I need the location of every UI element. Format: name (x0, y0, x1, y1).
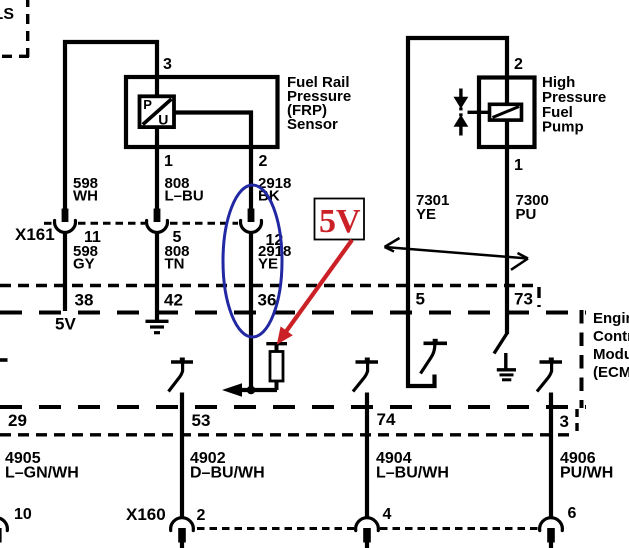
svg-text:2: 2 (259, 153, 268, 170)
ECM bottom dash-boundary (0, 405, 586, 409)
svg-text:10: 10 (14, 506, 32, 523)
svg-text:(ECM): (ECM) (593, 364, 629, 381)
wire: P/U output to sensor pin 2 (171, 113, 251, 211)
svg-text:1: 1 (164, 153, 173, 170)
svg-text:73: 73 (514, 290, 533, 309)
svg-text:3: 3 (560, 412, 569, 431)
dashed box corner top-left (0, 0, 29, 57)
switch at ECM pin 3 (537, 358, 562, 392)
wire label 4906 PU/WH (560, 450, 613, 482)
connector X160 pin 10 (cut off) (0, 518, 7, 543)
svg-text:YE: YE (258, 256, 278, 273)
wire: ECM pin 3 down to X160 pin 6 (549, 393, 553, 520)
red annotation arrow (285, 240, 352, 333)
wire label 598 GY (73, 243, 98, 273)
High Pressure Fuel Pump box (479, 78, 535, 148)
connector X161 pin 5 (147, 209, 168, 233)
wire: 2918 YE down to ECM pin 36 and junction (249, 233, 253, 391)
ECM connector dense-dash border (upper) (0, 286, 540, 308)
ground symbol at pin 42 (146, 321, 169, 332)
ECM connector dense-dash border (lower) (0, 409, 577, 435)
svg-text:2: 2 (514, 56, 523, 73)
svg-text:74: 74 (377, 410, 396, 429)
5V callout box (315, 199, 365, 240)
svg-text:U: U (158, 111, 168, 127)
svg-text:LS: LS (0, 6, 14, 23)
wire: sensor pin 1 down (155, 126, 159, 210)
connector X161 pin 12 (240, 209, 261, 233)
wire label 598 WH (73, 175, 98, 205)
wire label 808 TN (165, 243, 190, 273)
P/U pressure transducer symbol (140, 96, 175, 127)
svg-text:1: 1 (514, 157, 523, 174)
svg-text:YE: YE (416, 206, 436, 223)
X160 connector dashed row (197, 527, 538, 530)
X161 connector dashed row (44, 222, 238, 225)
continuation arrow (left) (222, 383, 242, 397)
ground symbol at pin 73 (497, 353, 516, 380)
resistor (5V pull-up) (266, 343, 287, 390)
svg-text:38: 38 (75, 291, 94, 310)
wire label 4902 D-BU/WH (190, 450, 265, 482)
pump check-valve symbol (454, 89, 469, 136)
svg-text:PU/WH: PU/WH (560, 465, 613, 482)
svg-text:42: 42 (164, 291, 183, 310)
FRP sensor name (287, 74, 351, 133)
connector X160 pin 4 (356, 518, 379, 548)
connector X160 pin 2 (171, 518, 194, 548)
wire label 7301 YE (416, 192, 449, 223)
wire label 4905 L-GN/WH (5, 450, 79, 482)
svg-text:GY: GY (73, 256, 95, 273)
wire label 2918 BK (258, 175, 291, 205)
svg-text:X160: X160 (126, 505, 166, 524)
Engine Control Module (ECM) name (593, 310, 629, 381)
switch at ECM pin 53 (169, 358, 194, 392)
wire: 598 GY down to ECM pin 38 (63, 233, 67, 312)
svg-text:TN: TN (165, 256, 185, 273)
svg-text:PU: PU (516, 206, 537, 223)
svg-text:L–GN/WH: L–GN/WH (5, 465, 79, 482)
svg-text:5V: 5V (55, 315, 76, 334)
pump solenoid symbol (490, 104, 522, 120)
wire label 4904 L-BU/WH (376, 450, 449, 482)
svg-text:29: 29 (8, 411, 27, 430)
wire: 808 TN down to ECM pin 42 (155, 233, 159, 321)
annotation double-headed arrow (385, 238, 529, 270)
svg-text:4: 4 (383, 506, 392, 523)
svg-text:Engine: Engine (593, 310, 629, 327)
switch at ECM pin 73 (7300 PU) to ground (494, 333, 508, 354)
wire: high pressure fuel pump loop (pin2 top, 7301 YE left leg with hook) (408, 38, 507, 386)
wire: 598 WH from X161 pin 11 up and over to FRP sensor pin 3 (65, 42, 157, 210)
svg-text:Pump: Pump (542, 119, 584, 136)
svg-text:36: 36 (258, 291, 277, 310)
wire: ECM pin 53 down to X160 pin 2 (180, 393, 184, 520)
wire: junction horizontal run (240, 388, 277, 392)
svg-text:53: 53 (192, 411, 211, 430)
wire label 808 L-BU (165, 175, 204, 205)
svg-text:6: 6 (568, 505, 577, 522)
svg-text:Control: Control (593, 328, 629, 345)
switch at ECM pin 74 (353, 358, 378, 392)
junction node (247, 386, 256, 395)
svg-text:2: 2 (197, 507, 206, 524)
svg-text:Module: Module (593, 346, 629, 363)
wire: ECM pin 74 down to X160 pin 4 (365, 393, 369, 520)
svg-text:P: P (143, 97, 152, 112)
svg-text:Sensor: Sensor (287, 116, 338, 133)
svg-text:WH: WH (73, 188, 98, 205)
connector X160 pin 6 (540, 518, 563, 548)
svg-text:X161: X161 (15, 225, 55, 244)
pump solenoid lead (468, 111, 491, 114)
ECM right dash-boundary (580, 310, 584, 408)
svg-text:3: 3 (163, 56, 172, 73)
connector X161 pin 11 (55, 209, 76, 233)
FRP sensor box (126, 77, 278, 147)
svg-text:L–BU: L–BU (165, 188, 204, 205)
blue highlight ellipse (223, 185, 282, 337)
svg-text:5V: 5V (319, 203, 361, 240)
svg-text:5: 5 (416, 290, 425, 309)
wire label 7300 PU (516, 192, 549, 223)
switch at ECM pin 5 (7301 YE) (421, 339, 448, 374)
svg-text:D–BU/WH: D–BU/WH (190, 465, 265, 482)
wire label 2918 YE (258, 243, 291, 273)
switch T-bar fragment at left edge (pin 29 circuit, cut off) (0, 358, 8, 362)
svg-text:L–BU/WH: L–BU/WH (376, 465, 449, 482)
High Pressure Fuel Pump name (542, 74, 606, 136)
ECM top dash-boundary (0, 311, 586, 315)
